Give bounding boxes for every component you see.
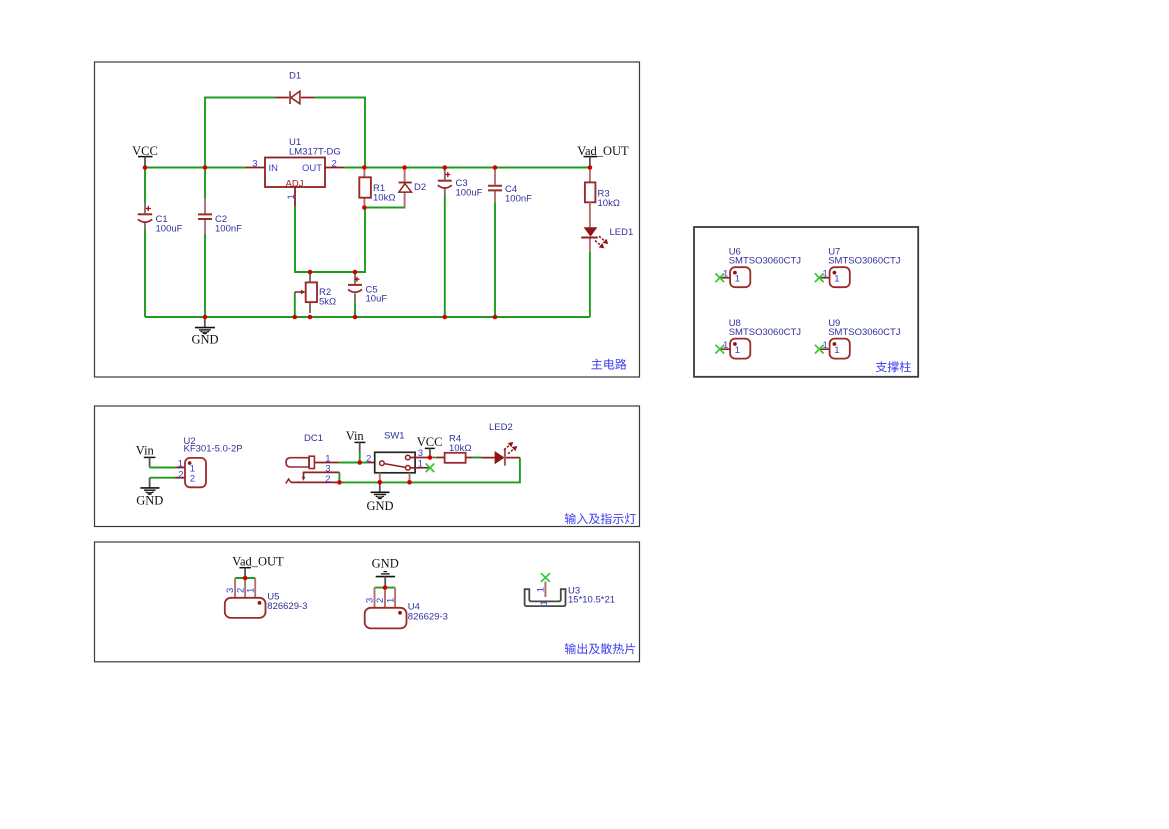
svg-text:3: 3 (252, 159, 257, 170)
svg-text:KF301-5.0-2P: KF301-5.0-2P (184, 444, 243, 455)
svg-text:2: 2 (366, 453, 371, 464)
svg-text:SMTSO3060CTJ: SMTSO3060CTJ (729, 327, 802, 338)
heatsink U3 (525, 573, 615, 606)
svg-text:1: 1 (418, 458, 423, 469)
diode D2 (399, 168, 427, 208)
resistor R3 (585, 168, 620, 209)
svg-text:1: 1 (246, 588, 257, 593)
svg-text:LM317T-DG: LM317T-DG (289, 147, 341, 158)
resistor R1 (359, 168, 395, 208)
frame box2 support posts (694, 227, 918, 377)
standoff U8 (715, 318, 801, 359)
LED LED1 (581, 202, 633, 252)
wire R1 bottom to D2 bottom (364, 206, 404, 208)
connector U4 (365, 588, 448, 629)
svg-text:10kΩ: 10kΩ (598, 198, 620, 209)
svg-text:2: 2 (190, 474, 195, 485)
svg-text:1: 1 (539, 600, 550, 605)
svg-text:LED1: LED1 (610, 227, 634, 238)
svg-text:10kΩ: 10kΩ (373, 192, 395, 203)
svg-text:SW1: SW1 (384, 431, 405, 442)
connector U5 (225, 578, 308, 618)
svg-text:SMTSO3060CTJ: SMTSO3060CTJ (828, 256, 901, 267)
svg-text:1: 1 (735, 274, 740, 285)
wire bottom bus (145, 316, 590, 318)
wire DC1 pin3 down (338, 472, 340, 482)
capacitor C4 (488, 168, 532, 205)
op-amp U1 regulator LM317 (265, 137, 341, 190)
wire R3 LED1 branch (589, 252, 591, 317)
svg-text:1: 1 (834, 345, 839, 356)
svg-text:3: 3 (418, 448, 423, 459)
wire ADJ loop (295, 206, 365, 272)
standoff U7 (815, 247, 901, 288)
svg-text:100uF: 100uF (156, 223, 183, 234)
wire D1 branch (205, 98, 365, 168)
junction dots box1 (143, 165, 593, 319)
svg-text:1: 1 (178, 459, 183, 470)
svg-text:DC1: DC1 (304, 433, 323, 444)
svg-text:2: 2 (325, 474, 330, 485)
junction dots box4 (243, 576, 388, 590)
junction dots box3 (337, 455, 432, 485)
svg-text:100nF: 100nF (505, 193, 532, 204)
frame box1 main circuit (95, 62, 640, 377)
svg-text:OUT: OUT (302, 163, 322, 174)
svg-text:GND: GND (136, 494, 163, 508)
wire GND to U2 pin2 (150, 477, 176, 479)
pin 2 of U1 (325, 159, 345, 170)
capacitor C3 (438, 168, 483, 199)
svg-text:3: 3 (365, 598, 376, 603)
svg-text:D1: D1 (289, 71, 301, 82)
wire DC1 pin1 to SW1 (339, 462, 368, 464)
net label Vin mid (346, 429, 366, 463)
svg-text:1: 1 (723, 340, 728, 351)
power flag VCC (132, 144, 158, 168)
switch SW1 (366, 431, 430, 483)
power flag VCC mid (417, 435, 443, 457)
connector DC1 barrel jack (286, 433, 340, 485)
svg-text:100uF: 100uF (456, 187, 483, 198)
svg-text:Vin: Vin (136, 444, 155, 458)
wire C2 branch (204, 168, 206, 318)
svg-text:1: 1 (735, 345, 740, 356)
capacitor C1 (138, 203, 183, 234)
svg-text:1: 1 (823, 268, 828, 279)
svg-text:1: 1 (286, 194, 297, 199)
connector U2 (175, 436, 243, 487)
wire VCC junction to R4 (433, 457, 436, 459)
svg-text:GND: GND (191, 333, 218, 347)
wire C3 branch (444, 196, 446, 317)
frame box3 input and indicator (95, 406, 640, 527)
svg-text:GND: GND (372, 557, 399, 571)
svg-text:5kΩ: 5kΩ (319, 296, 336, 307)
svg-text:VCC: VCC (417, 435, 443, 449)
ground GND main (191, 317, 218, 347)
potentiometer R2 (295, 272, 336, 313)
ground GND bottom (372, 557, 399, 588)
wire top bus left segment (145, 167, 246, 169)
diode D1 (275, 71, 314, 105)
svg-text:GND: GND (366, 499, 393, 513)
svg-text:Vin: Vin (346, 429, 365, 443)
net label Vad_OUT bottom (232, 555, 284, 579)
wire U5 pin bar (235, 577, 255, 579)
no-connect X on SW1 pin1 (426, 464, 435, 473)
svg-text:1: 1 (823, 340, 828, 351)
svg-text:SMTSO3060CTJ: SMTSO3060CTJ (828, 327, 901, 338)
svg-text:LED2: LED2 (489, 422, 513, 433)
wire C4 branch (494, 203, 496, 317)
svg-text:100nF: 100nF (215, 223, 242, 234)
wire R4 to LED2 (473, 457, 482, 459)
wire top bus right segment (345, 167, 590, 169)
net label Vad_OUT (577, 144, 629, 168)
ground GND mid (366, 482, 393, 513)
capacitor C5 (348, 272, 387, 305)
svg-text:1: 1 (385, 598, 396, 603)
svg-text:D2: D2 (414, 182, 426, 193)
svg-text:Vad_OUT: Vad_OUT (232, 555, 284, 569)
net label Vin left (136, 444, 156, 468)
svg-text:IN: IN (269, 163, 279, 174)
pin 1 ADJ of U1 (286, 187, 297, 206)
frame box4 output and heatsink (95, 542, 640, 662)
svg-text:1: 1 (535, 587, 546, 592)
svg-text:826629-3: 826629-3 (267, 601, 307, 612)
LED LED2 (481, 422, 520, 466)
ground GND left (136, 478, 163, 508)
svg-text:15*10.5*21: 15*10.5*21 (568, 595, 615, 606)
standoff U6 (715, 247, 801, 288)
wire R2 wiper to ground bus (294, 292, 296, 317)
svg-text:1: 1 (834, 274, 839, 285)
svg-text:10uF: 10uF (366, 294, 388, 305)
capacitor C2 (198, 199, 242, 235)
standoff U9 (815, 318, 901, 359)
svg-text:1: 1 (723, 268, 728, 279)
svg-text:826629-3: 826629-3 (408, 611, 448, 622)
svg-text:SMTSO3060CTJ: SMTSO3060CTJ (729, 256, 802, 267)
svg-text:2: 2 (332, 159, 337, 170)
wire bottom return path (339, 458, 520, 483)
pin 3 of U1 (246, 159, 266, 170)
wire C5 bottom (354, 303, 356, 317)
wire C1 branch (144, 168, 146, 318)
resistor R4 (430, 434, 473, 463)
svg-text:2: 2 (178, 469, 183, 480)
wire Vin to U2 pin1 (150, 467, 176, 469)
wire U4 pin bar (375, 587, 396, 589)
